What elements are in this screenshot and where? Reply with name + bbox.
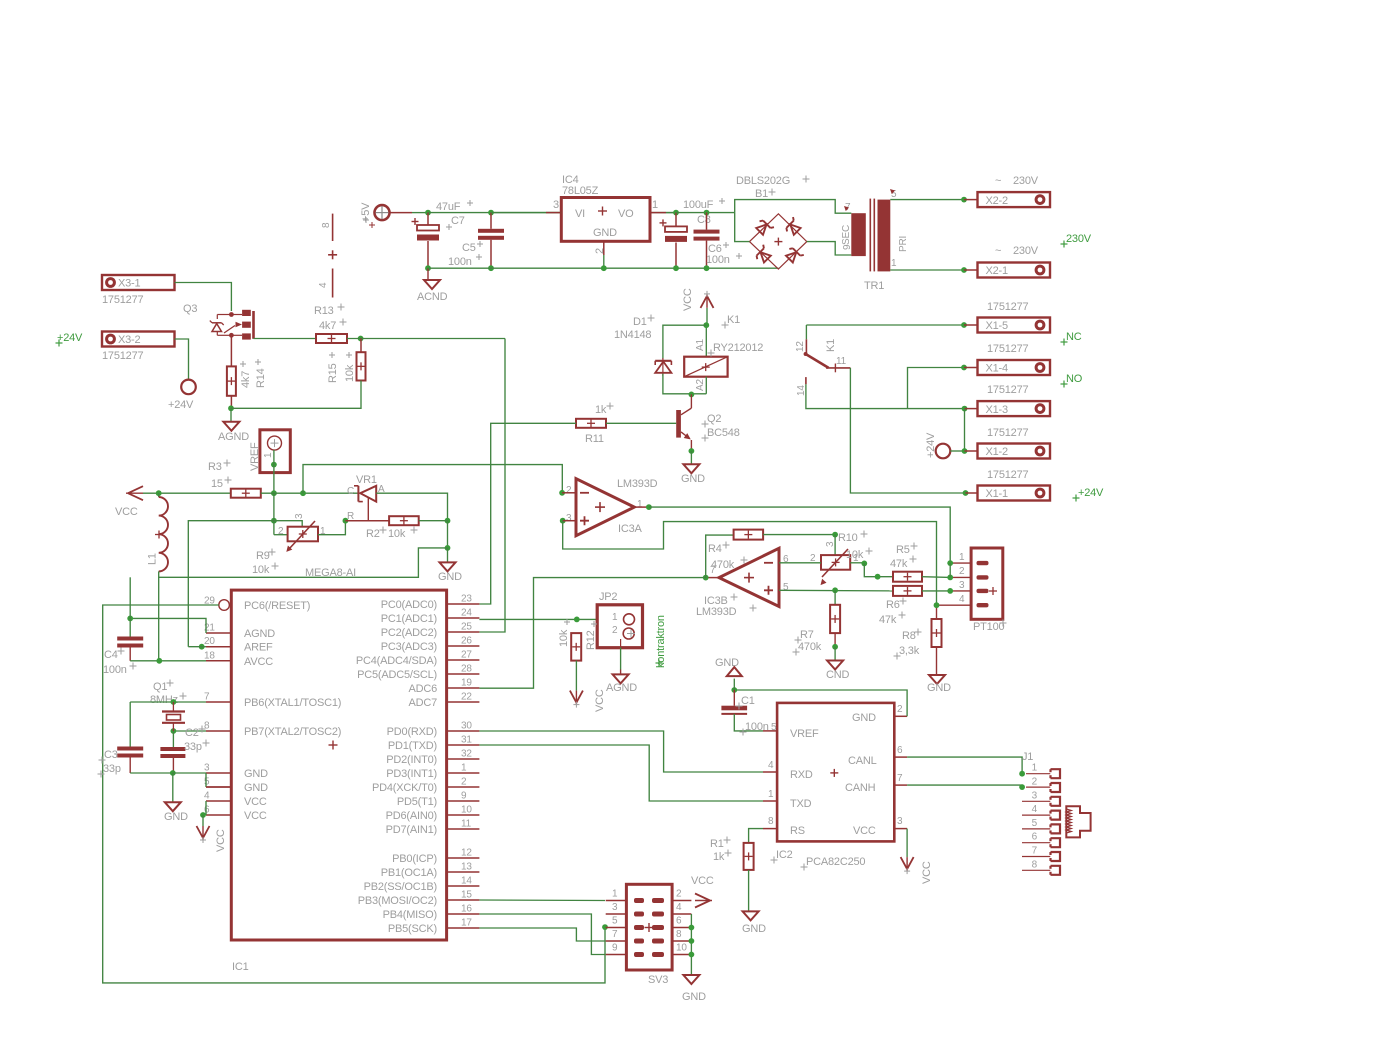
capacitor C3 33p [98, 747, 174, 778]
svg-text:8: 8 [321, 222, 332, 228]
capacitor C1 100n [721, 690, 777, 736]
svg-text:ADC6: ADC6 [408, 683, 437, 695]
svg-text:L1: L1 [147, 553, 159, 565]
svg-text:1: 1 [652, 199, 658, 211]
svg-text:X1-1: X1-1 [986, 488, 1009, 500]
svg-text:100n: 100n [706, 254, 730, 266]
node PT100 pin4 [934, 602, 940, 608]
ground CND under R7 [826, 647, 849, 681]
svg-text:CND: CND [826, 669, 849, 681]
svg-text:R3: R3 [208, 461, 222, 473]
connector X2-1 [964, 245, 1050, 278]
svg-text:230V: 230V [1013, 245, 1039, 257]
svg-text:PB4(MISO): PB4(MISO) [383, 909, 437, 921]
svg-text:SV3: SV3 [648, 974, 668, 986]
svg-text:7: 7 [612, 929, 618, 940]
svg-text:R12: R12 [585, 630, 597, 650]
connector PT100 [959, 548, 1007, 633]
capacitor C7 47uF [412, 200, 474, 268]
svg-text:1: 1 [1032, 763, 1038, 774]
svg-text:1: 1 [263, 452, 274, 458]
svg-text:10: 10 [676, 943, 687, 954]
svg-text:~: ~ [995, 245, 1001, 257]
node SV3 pin10 [689, 952, 695, 958]
svg-text:PD0(RXD): PD0(RXD) [387, 726, 437, 738]
node C8 bottom [673, 265, 679, 271]
svg-text:8: 8 [204, 721, 210, 732]
svg-text:VR1: VR1 [356, 474, 377, 486]
RJ45 jack symbol [1066, 806, 1090, 837]
svg-text:1k: 1k [595, 404, 607, 416]
wire PD1 to TXD [479, 745, 777, 801]
svg-text:VCC: VCC [691, 875, 714, 887]
wire X3-1 to Q3 drain [175, 283, 232, 312]
svg-text:11: 11 [836, 356, 847, 367]
svg-text:JP2: JP2 [599, 591, 617, 603]
svg-text:C: C [347, 486, 354, 497]
wire IC4 input [491, 212, 561, 214]
svg-text:R5: R5 [896, 544, 910, 556]
svg-text:18: 18 [204, 650, 215, 661]
svg-text:15: 15 [211, 478, 223, 490]
node R14-R15 [228, 405, 234, 411]
pin PT100 stubs [937, 563, 972, 605]
net label kontraktron [655, 615, 667, 668]
svg-text:C2: C2 [185, 727, 199, 739]
connector X1-4 [964, 343, 1050, 375]
wire C8-C6 rail [676, 212, 735, 214]
svg-text:3: 3 [1032, 790, 1038, 801]
pin IC3A output [634, 504, 652, 510]
wire bridge AC1 top [735, 200, 852, 214]
node X1-2 [962, 448, 968, 454]
power VCC arrow left [115, 486, 143, 518]
svg-text:10k: 10k [252, 564, 270, 576]
svg-text:PD6(AIN0): PD6(AIN0) [386, 810, 437, 822]
resistor R2 10k [366, 516, 419, 540]
svg-text:14: 14 [461, 876, 472, 887]
wire AGND pin to GND net [130, 618, 206, 633]
svg-text:2: 2 [278, 526, 284, 537]
op-amp power pins 8/4 [318, 214, 337, 298]
wire SV3 gnd pins [690, 914, 692, 975]
wire VCC row [143, 492, 231, 494]
svg-text:R7: R7 [800, 629, 814, 641]
wire R1 to GND [748, 870, 750, 912]
svg-text:VREF: VREF [249, 442, 261, 471]
svg-text:1N4148: 1N4148 [614, 329, 651, 341]
svg-text:ADC7: ADC7 [408, 697, 437, 709]
svg-text:LM393D: LM393D [696, 606, 737, 618]
svg-text:R11: R11 [585, 433, 604, 445]
capacitor C8 100uF [660, 198, 726, 268]
svg-text:SEC: SEC [841, 225, 852, 245]
svg-text:IC3A: IC3A [618, 523, 643, 535]
svg-text:7: 7 [897, 773, 903, 784]
svg-text:+24V: +24V [925, 432, 937, 458]
svg-text:C5: C5 [462, 242, 476, 254]
svg-text:GND: GND [244, 768, 268, 780]
pin IC3A plus [560, 518, 576, 524]
svg-text:15: 15 [461, 890, 472, 901]
svg-text:X3-1: X3-1 [118, 278, 141, 290]
svg-text:X1-3: X1-3 [986, 404, 1009, 416]
svg-text:5: 5 [204, 777, 210, 788]
wire IC3B plus net [779, 589, 893, 592]
wire R11 to Q2 base [606, 422, 676, 424]
svg-text:3: 3 [553, 199, 559, 211]
transformer TR1 [841, 189, 909, 292]
svg-text:22: 22 [461, 692, 472, 703]
wire TR1 pri pin5 to X2-2 [890, 199, 964, 201]
node PT100 pin2 [947, 575, 953, 581]
svg-text:11: 11 [461, 819, 472, 830]
svg-text:PD4(XCK/T0): PD4(XCK/T0) [372, 782, 437, 794]
resistor R6 47k [879, 586, 922, 626]
svg-text:PC0(ADC0): PC0(ADC0) [381, 599, 437, 611]
node IC4 gnd [601, 265, 607, 271]
connector X3-1 [102, 275, 175, 306]
svg-text:PC3(ADC3): PC3(ADC3) [381, 641, 437, 653]
resistor R14 4k7 [227, 359, 267, 396]
pin IC4 VI stub [546, 212, 561, 214]
svg-text:PB1(OC1A): PB1(OC1A) [381, 867, 437, 879]
svg-text:8: 8 [768, 816, 774, 827]
connector X1-3 [965, 384, 1051, 416]
svg-text:PC5(ADC5/SCL): PC5(ADC5/SCL) [357, 669, 437, 681]
node C8 top [673, 210, 679, 216]
svg-text:1751277: 1751277 [987, 469, 1029, 481]
svg-text:GND: GND [681, 473, 705, 485]
resistor R3 15 [208, 460, 261, 498]
svg-text:33p: 33p [184, 741, 202, 753]
node R2 right [445, 518, 451, 524]
svg-text:47k: 47k [890, 558, 908, 570]
svg-text:RS: RS [790, 825, 805, 837]
wire X3-2 to +24V supply [175, 339, 189, 380]
potentiometer R9 10k [252, 513, 326, 576]
svg-text:PD3(INT1): PD3(INT1) [386, 768, 437, 780]
svg-text:+24V: +24V [1078, 487, 1104, 499]
svg-text:~: ~ [995, 175, 1001, 187]
svg-text:GND: GND [852, 712, 876, 724]
svg-text:33p: 33p [103, 763, 121, 775]
node K1 coil A1 [703, 322, 709, 328]
capacitor C6 100n [694, 210, 743, 269]
svg-text:MEGA8-AI: MEGA8-AI [305, 567, 356, 579]
resistor R5 47k [890, 543, 922, 582]
svg-text:27: 27 [461, 650, 472, 661]
svg-text:2: 2 [959, 566, 965, 577]
svg-text:VCC: VCC [921, 861, 933, 884]
svg-text:NO: NO [1066, 373, 1083, 385]
svg-text:+24V: +24V [57, 332, 83, 344]
svg-text:X1-4: X1-4 [986, 363, 1009, 375]
wire IC3A plus input net [563, 521, 937, 606]
wire R5 right to PT100 pin2 [922, 576, 950, 579]
svg-text:9: 9 [842, 244, 853, 250]
wire +5V to C7 node [390, 212, 429, 214]
node R2 left [343, 518, 349, 524]
node R12 top [574, 617, 580, 623]
node SV3 pin8 [689, 938, 695, 944]
wire CANH to J1 pin2 [894, 785, 1022, 787]
power symbol +24V right [925, 432, 965, 458]
wire to IC3A minus input [303, 465, 562, 494]
wire bridge DC+ left vertex [735, 213, 750, 242]
wire gnd branch down [172, 773, 174, 802]
svg-text:VCC: VCC [115, 506, 138, 518]
node C7 bottom [425, 265, 431, 271]
node C7 top [425, 210, 431, 216]
svg-text:AREF: AREF [244, 642, 273, 654]
power symbol +24V left [168, 380, 196, 411]
svg-text:GND: GND [438, 571, 462, 583]
ground GND under R1 [742, 911, 766, 935]
wire K1-12 to X1-5 [806, 324, 964, 326]
node PT100 pin1 [947, 560, 953, 566]
wire emitter to GND [690, 451, 692, 464]
ground GND under C2 [164, 802, 188, 823]
svg-text:TR1: TR1 [864, 280, 884, 292]
wire C3 branch [129, 702, 131, 747]
svg-text:LM393D: LM393D [617, 478, 658, 490]
svg-text:PC1(ADC1): PC1(ADC1) [381, 613, 437, 625]
transceiver IC2 PCA82C250 [768, 703, 903, 871]
svg-text:AVCC: AVCC [244, 656, 273, 668]
svg-text:PB6(XTAL1/TOSC1): PB6(XTAL1/TOSC1) [244, 697, 341, 709]
svg-text:A1: A1 [695, 339, 706, 351]
svg-text:A2: A2 [695, 379, 706, 391]
wire IC3B feedback up [706, 535, 734, 578]
svg-text:B1: B1 [755, 188, 768, 200]
svg-text:PCA82C250: PCA82C250 [806, 856, 865, 868]
svg-text:47k: 47k [879, 614, 897, 626]
capacitor C5 100n [448, 210, 504, 269]
svg-text:CANL: CANL [848, 755, 877, 767]
svg-text:VREF: VREF [790, 728, 819, 740]
svg-text:2: 2 [897, 704, 903, 715]
voltage regulator IC4 78L05Z [553, 174, 658, 254]
wire R2 left [345, 520, 389, 522]
svg-text:VCC: VCC [853, 825, 876, 837]
power VCC arrow at K1 coil [682, 288, 714, 311]
svg-text:4k7: 4k7 [240, 371, 252, 388]
wire R13 to pin25 corner [347, 338, 505, 340]
svg-text:R6: R6 [886, 599, 900, 611]
wire pin25 net [479, 339, 505, 633]
label MEGA8-AI [305, 567, 356, 579]
node R7 bottom [832, 633, 838, 650]
svg-text:C1: C1 [741, 695, 755, 707]
svg-text:GND: GND [164, 811, 188, 823]
connector X1-5 [964, 301, 1050, 333]
svg-text:28: 28 [461, 664, 472, 675]
svg-text:RXD: RXD [790, 769, 813, 781]
svg-text:19: 19 [461, 678, 472, 689]
wire VCC pins [200, 801, 206, 826]
svg-text:6: 6 [1032, 832, 1038, 843]
transistor Q2 BC548 [676, 394, 740, 451]
diode D1 1N4148 [614, 315, 706, 394]
node L1 top [156, 490, 162, 496]
wire main +5V rail [428, 212, 676, 214]
wire R15 bottom to R14 node [231, 381, 361, 409]
wire AVCC row [130, 660, 206, 662]
label K1 coil [722, 314, 741, 329]
svg-text:3: 3 [204, 763, 210, 774]
resistor R8 3.3k [894, 605, 942, 659]
svg-text:1751277: 1751277 [102, 350, 144, 362]
svg-text:2: 2 [461, 777, 467, 788]
svg-text:25: 25 [461, 622, 472, 633]
connector J1 [1022, 751, 1060, 875]
power VCC down under R12 [570, 689, 606, 712]
node Q2 collector [689, 392, 695, 398]
connector SV3 [606, 884, 692, 986]
svg-text:78L05Z: 78L05Z [562, 185, 599, 197]
net label NO [1061, 373, 1083, 388]
wire IC3B minus to R10 [779, 562, 821, 564]
resistor R7 470k [793, 590, 841, 655]
wire pin15 to SV3 pin1 [479, 899, 605, 902]
node IC3B plus branch [832, 587, 838, 593]
svg-text:GND: GND [244, 782, 268, 794]
svg-text:4: 4 [204, 791, 210, 802]
wire pin17 to SV3 pin7 [479, 928, 605, 941]
wire GND net to C4 [129, 577, 131, 636]
svg-text:IC2: IC2 [776, 849, 793, 861]
svg-text:3: 3 [825, 541, 836, 547]
wire R11 left to pin23 net [479, 423, 576, 604]
wire R9 pin1 [318, 521, 345, 535]
wire VR1 anode to R2 right [376, 493, 447, 521]
resistor R15 10k [327, 339, 366, 384]
svg-text:R10: R10 [838, 532, 858, 544]
svg-text:+24V: +24V [168, 399, 194, 411]
svg-text:12: 12 [461, 848, 472, 859]
ground AGND under R14 [218, 422, 249, 443]
wire GND net left [159, 548, 448, 577]
wire R10-R5 elbow [864, 563, 893, 576]
svg-text:230V: 230V [1066, 233, 1092, 245]
node GND pins [170, 770, 176, 776]
wire Q3 gate to R13 [254, 338, 317, 340]
svg-text:2: 2 [1032, 777, 1038, 788]
svg-text:PB3(MOSI/OC2): PB3(MOSI/OC2) [358, 895, 437, 907]
wire JP2 pin2 to AGND [620, 639, 622, 674]
node C6 bottom [704, 265, 710, 271]
svg-text:100uF: 100uF [683, 199, 714, 211]
svg-text:PD5(T1): PD5(T1) [397, 796, 437, 808]
capacitor C4 100n [103, 637, 143, 677]
svg-text:R2: R2 [366, 528, 380, 540]
svg-text:6: 6 [676, 916, 682, 927]
svg-text:12: 12 [795, 341, 806, 352]
svg-text:9: 9 [461, 791, 467, 802]
connector X2-2 [964, 175, 1050, 207]
resistor R1 1k [710, 837, 754, 870]
wire VCC to coil node [705, 308, 708, 357]
svg-text:10: 10 [461, 805, 472, 816]
svg-text:GND: GND [742, 923, 766, 935]
svg-text:AGND: AGND [218, 431, 249, 443]
svg-text:VCC: VCC [244, 810, 267, 822]
node AVCC-L1 [156, 658, 162, 664]
svg-text:PRI: PRI [898, 236, 909, 252]
wire R9 wiper [274, 521, 302, 527]
svg-text:100n: 100n [448, 256, 472, 268]
svg-text:X1-5: X1-5 [986, 320, 1009, 332]
svg-text:9: 9 [612, 943, 618, 954]
wire TR1 pri pin1 to X2-1 [890, 269, 964, 271]
svg-text:Q2: Q2 [707, 413, 721, 425]
wire PB6 row [130, 699, 206, 711]
wire R4 right [763, 534, 835, 536]
node R5 left [875, 574, 881, 580]
svg-text:AGND: AGND [244, 628, 275, 640]
svg-text:GND: GND [927, 682, 951, 694]
svg-text:1751277: 1751277 [987, 343, 1029, 355]
svg-text:4: 4 [318, 282, 329, 288]
svg-text:4: 4 [676, 902, 682, 913]
svg-text:PD1(TXD): PD1(TXD) [388, 740, 437, 752]
svg-text:26: 26 [461, 636, 472, 647]
svg-text:TXD: TXD [790, 798, 812, 810]
svg-text:VCC: VCC [682, 288, 694, 311]
wire branch to AREF [188, 521, 274, 647]
resistor R13 4k7 [314, 304, 347, 344]
svg-text:CANH: CANH [845, 782, 876, 794]
svg-text:J1: J1 [1022, 751, 1033, 763]
wire R10 right to R5 [850, 562, 864, 564]
svg-text:4: 4 [768, 760, 774, 771]
svg-text:23: 23 [461, 594, 472, 605]
node R9 top branch [271, 518, 277, 524]
svg-text:IC1: IC1 [232, 961, 249, 973]
power supply symbol +5V [360, 202, 390, 228]
capacitor C2 33p [160, 726, 209, 774]
wire RESET net [103, 605, 605, 983]
wire R2 right to GND [419, 521, 448, 548]
bridge rectifier B1 DBLS202G [736, 175, 810, 269]
svg-text:2: 2 [612, 625, 618, 636]
svg-text:C4: C4 [104, 649, 118, 661]
svg-text:2: 2 [676, 889, 682, 900]
transistor Q3 P-MOSFET [183, 303, 254, 340]
relay contact K1 [795, 325, 850, 396]
svg-text:6: 6 [897, 745, 903, 756]
svg-text:47uF: 47uF [436, 201, 461, 213]
svg-text:RY212012: RY212012 [713, 342, 763, 354]
svg-text:8: 8 [676, 929, 682, 940]
svg-text:1751277: 1751277 [987, 384, 1029, 396]
node J1 pin1 [1019, 771, 1025, 777]
svg-text:PC2(ADC2): PC2(ADC2) [381, 627, 437, 639]
svg-text:1: 1 [768, 789, 774, 800]
wire R6 right to PT100 pin3 [922, 590, 950, 592]
svg-text:R13: R13 [314, 305, 334, 317]
node VREF pin [271, 490, 277, 496]
wire IC3A out to PT100 pin1 [649, 507, 950, 563]
node C1 top [731, 687, 737, 693]
ground AGND under JP2 [606, 674, 637, 694]
svg-text:470k: 470k [711, 559, 735, 571]
wire X1-3 to X1-2 [964, 409, 966, 451]
net label +24V right [1073, 487, 1105, 502]
power VCC down under IC1 [197, 826, 228, 852]
wire X1-4 net [908, 368, 965, 409]
